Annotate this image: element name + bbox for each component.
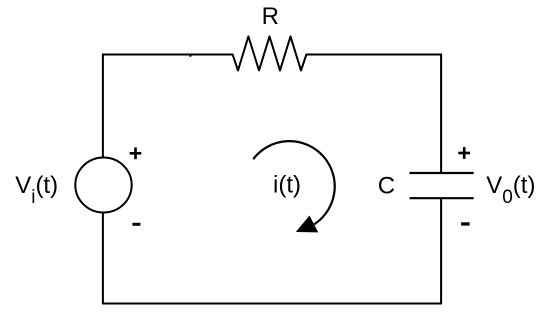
svg-text:i(t): i(t) (273, 171, 301, 198)
minus sign at capacitor (461, 222, 470, 225)
voltage source circle (75, 158, 131, 213)
minus sign at source (132, 223, 140, 226)
svg-text:R: R (262, 3, 279, 30)
capacitor C bottom plate (410, 197, 474, 199)
resistor R zigzag (233, 36, 307, 70)
capacitor C top plate (410, 172, 474, 174)
wire: left vertical + top-left corner + top horizontal to resistor (103, 55, 233, 158)
wire junction tick on top wire (189, 54, 191, 57)
wire: top horizontal right + top-right corner + right vertical to capacitor (306, 55, 441, 174)
svg-text:C: C (378, 173, 395, 200)
current loop arrowhead (296, 216, 318, 233)
svg-text:Vi(t): Vi(t) (15, 172, 58, 208)
svg-text:V0(t): V0(t) (486, 172, 535, 208)
wire: right vertical lower + bottom corners + left vertical lower (103, 198, 441, 303)
plus sign at capacitor (458, 147, 470, 159)
current loop arc i(t) (253, 141, 335, 226)
plus sign at source (130, 147, 142, 159)
